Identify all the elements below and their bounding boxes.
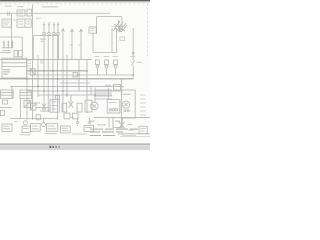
wire vertical x67 xyxy=(66,55,68,97)
footer small text mid xyxy=(45,132,57,135)
wire vertical x121.5 drop xyxy=(121,79,123,90)
small label box x120 y37 xyxy=(120,37,125,41)
label between boxes xyxy=(13,19,16,22)
label near ground G1 xyxy=(71,116,74,119)
wire stub x49 up xyxy=(48,22,50,32)
small box x36 y115 xyxy=(36,115,40,120)
small box x64 y113 xyxy=(64,113,70,119)
wire vertical x57.5 xyxy=(57,36,59,120)
legend box 2 xyxy=(17,19,31,27)
component box small x73 xyxy=(73,72,77,77)
wire vertical x93 xyxy=(92,33,94,52)
wire bus y86.5 xyxy=(10,85,123,87)
wire vertical x95 xyxy=(94,88,96,103)
transistor Q1 xyxy=(24,100,31,107)
bottom component box 1 xyxy=(2,124,12,131)
sensor box B2 xyxy=(0,110,4,115)
connector box left bottom stack A xyxy=(0,90,13,98)
wire vertical x22 xyxy=(21,37,23,60)
title text row top center xyxy=(42,6,58,7)
ground G1 xyxy=(77,118,79,122)
resistor R2 xyxy=(7,41,9,48)
wire vertical x112 xyxy=(111,29,113,53)
relay box K4 xyxy=(30,103,36,110)
resistor R1 xyxy=(3,41,5,48)
arrow head x72 xyxy=(71,29,74,32)
wire vertical x38 xyxy=(37,55,39,97)
wire vertical x53 xyxy=(52,36,54,112)
wire vertical x11.5 xyxy=(11,13,13,48)
wire second bottom border right xyxy=(120,136,150,138)
label right of bowtie xyxy=(127,123,133,126)
wire vertical x20.4 xyxy=(19,98,21,118)
switch S1 xyxy=(132,60,135,65)
terminal ticks top right xyxy=(111,25,113,28)
motor M1 xyxy=(91,102,99,110)
connector stack lines xyxy=(95,89,112,91)
wire bus y91 xyxy=(27,90,123,92)
relay K2 xyxy=(105,60,109,65)
wire vertical x91 xyxy=(90,86,92,95)
wire bus y75 xyxy=(30,74,133,76)
wire bus y117.5 xyxy=(94,117,150,119)
resistor R3 xyxy=(11,41,13,48)
module box mid xyxy=(50,99,59,112)
wire horizontal y52.5 left xyxy=(0,52,11,54)
lamp symbol x43 xyxy=(43,118,45,123)
footer small text left xyxy=(20,133,31,136)
label row under bowtie xyxy=(128,129,134,132)
wire resistor bottom rail xyxy=(2,47,13,49)
wire horizontal y37 xyxy=(0,36,22,38)
wire vertical x12 drop xyxy=(11,86,13,98)
small box x72 y113 xyxy=(72,113,78,119)
wire vertical x63 xyxy=(62,28,64,112)
valve bowtie bottom right xyxy=(119,122,125,129)
control unit box A1 xyxy=(2,58,27,78)
connector pin circle P2 xyxy=(48,32,51,35)
legend box xyxy=(2,19,11,27)
arrow head x63 xyxy=(62,29,65,32)
wire y107.6 mid xyxy=(36,107,50,109)
title text row 1 xyxy=(90,129,138,136)
sheet right dashed border xyxy=(147,4,149,58)
junction box J1 top xyxy=(33,36,58,60)
bottom component box 5 xyxy=(84,125,94,131)
bottom component box 4 xyxy=(60,126,70,133)
wire bus y71 xyxy=(27,70,87,72)
tick label x72 xyxy=(70,44,72,47)
stamp box bottom right xyxy=(139,126,147,133)
wire vertical x79 xyxy=(78,60,80,91)
connector block X2 xyxy=(27,9,32,16)
sender unit xyxy=(23,121,27,125)
wire top horizontal bus xyxy=(0,12,110,14)
wire vertical x133 xyxy=(132,28,134,60)
wire stub x54 up xyxy=(53,22,55,32)
wire vertical x81 xyxy=(80,29,82,59)
wire vertical x71 xyxy=(70,95,72,103)
wire horizontal y52.5 right xyxy=(93,51,117,53)
label x14 y121 xyxy=(14,120,18,123)
small label x36 y18 xyxy=(36,17,41,20)
connector block X1 xyxy=(17,10,25,16)
ground G2 xyxy=(89,118,91,122)
label x40 y61 xyxy=(40,60,44,63)
tick label x81 xyxy=(79,44,81,47)
status bar page text xyxy=(50,146,60,148)
connector box X3 xyxy=(89,27,96,33)
hatch scribble top right xyxy=(113,20,127,32)
wire vertical x72 xyxy=(71,29,73,59)
connector ring on x133 xyxy=(132,52,134,54)
page background xyxy=(0,0,150,150)
motor M2 xyxy=(122,101,129,108)
sensor B1 xyxy=(2,100,7,104)
wire stub x58 up xyxy=(57,22,59,32)
wire vertical x48 xyxy=(47,36,49,112)
label inside J1 xyxy=(40,38,46,41)
wire bus y79 xyxy=(0,78,133,80)
wire vertical x116.5 xyxy=(116,29,118,53)
wire vertical x108.5 xyxy=(108,88,110,99)
relay box K0 mid-left xyxy=(30,69,35,76)
label left of pump box xyxy=(120,85,124,88)
wire y83 partial xyxy=(60,82,90,84)
solenoid box Y1 xyxy=(107,100,120,113)
status bar separator xyxy=(0,144,150,145)
label under resistors xyxy=(2,49,10,52)
top toolbar dark bar xyxy=(0,0,150,1)
valve symbol x68-74 xyxy=(68,101,73,107)
wire y118.6 left xyxy=(10,118,58,120)
bottom component box 2 xyxy=(31,124,41,132)
component arrow x44 xyxy=(42,104,46,110)
connector box left bottom stack B xyxy=(20,90,32,98)
wire y111 mid xyxy=(40,110,50,112)
pin list right column xyxy=(140,94,146,97)
connector pin circle P3 xyxy=(53,32,56,35)
fuse box F1 xyxy=(14,50,18,56)
stamp box edge xyxy=(96,17,98,34)
title block page box xyxy=(113,118,122,128)
box x85 xyxy=(85,100,92,112)
status bar xyxy=(0,144,150,147)
fuse box under relays xyxy=(113,84,120,90)
junction dots xyxy=(26,70,134,96)
box x77 xyxy=(77,103,82,112)
wire vertical x32.5 long xyxy=(32,5,34,121)
component box x55 y95 xyxy=(55,96,59,100)
label text top-left xyxy=(5,5,12,8)
wire vertical x44 down xyxy=(43,36,45,112)
wire vertical x27 xyxy=(26,58,28,120)
bottom component box 3 xyxy=(46,124,57,132)
pin labels right of A1 xyxy=(28,59,31,62)
arrow head x81 xyxy=(80,29,83,32)
wire stub x44 up xyxy=(43,22,45,32)
title block verticals xyxy=(108,118,110,128)
ground box x62 xyxy=(62,103,67,112)
wire vertical x120 xyxy=(119,100,121,113)
capacitor C1 on top wire xyxy=(6,12,8,16)
wire bottom border right xyxy=(118,133,150,135)
wire y107.5 xyxy=(0,107,12,109)
title block small text upper xyxy=(90,120,95,123)
connector pin circle P4 xyxy=(57,32,60,35)
switch label xyxy=(137,61,142,64)
relay K1 xyxy=(96,60,100,65)
relay K3 xyxy=(114,60,118,65)
fuse box F2 xyxy=(19,50,23,56)
wire y103 stub xyxy=(27,102,40,104)
pump unit box right xyxy=(122,90,136,118)
wire vertical x87 xyxy=(86,60,88,113)
sheet top dashed border xyxy=(0,3,150,5)
connector pin circle P1 xyxy=(43,32,46,35)
wire y95 xyxy=(38,94,112,96)
wire main bus y59.6 xyxy=(0,59,92,61)
